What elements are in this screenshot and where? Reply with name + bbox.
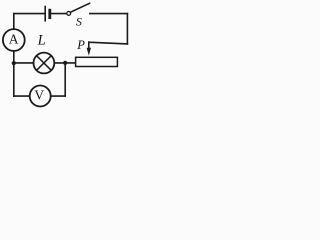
svg-text:P: P	[76, 38, 85, 52]
wire bottom row	[14, 95, 65, 97]
rheostat body R	[76, 57, 118, 66]
switch blade	[71, 3, 90, 12]
wire left vertical	[13, 14, 15, 97]
wire battery to switch	[51, 13, 67, 15]
wiper arrowhead	[87, 48, 91, 56]
voltmeter V1 circle	[30, 86, 51, 107]
wire top-left to battery	[14, 13, 45, 15]
junction dot right	[63, 61, 67, 65]
svg-text:V: V	[34, 88, 44, 103]
lamp L circle	[34, 53, 55, 74]
wire jog to wiper	[89, 42, 128, 44]
battery long plate	[44, 7, 46, 21]
svg-text:S: S	[76, 14, 82, 28]
switch pivot circle	[67, 12, 71, 16]
ammeter A1 circle	[3, 29, 25, 51]
wire voltmeter branch vertical	[64, 63, 66, 96]
svg-text:L: L	[37, 33, 46, 49]
wire switch to top-right corner	[90, 13, 128, 15]
wire right vertical	[126, 14, 128, 44]
wiper arrow shaft	[88, 42, 90, 49]
junction dot left	[12, 61, 16, 65]
wire lamp row	[14, 62, 76, 64]
svg-text:A: A	[9, 31, 19, 46]
lamp cross	[37, 56, 51, 70]
battery short plate	[48, 10, 51, 17]
